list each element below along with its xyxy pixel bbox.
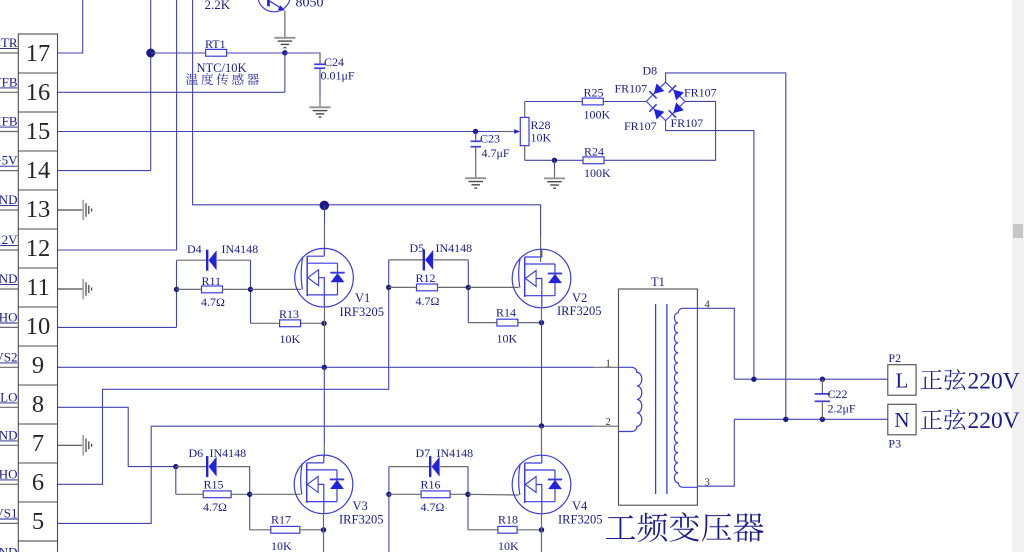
T1 pin4 label (705, 300, 711, 311)
wire V1 gate node vertical (250, 260, 252, 323)
svg-text:4.7Ω: 4.7Ω (416, 294, 440, 308)
svg-text:IN4148: IN4148 (436, 241, 473, 255)
label P3 (888, 437, 901, 451)
label R11 (202, 274, 222, 288)
wire R28 top to R25 (525, 101, 583, 103)
stub pin7 ground (58, 444, 83, 446)
svg-text:IN4148: IN4148 (437, 446, 474, 460)
junction R24 gnd (552, 158, 557, 163)
lead V3 drain (323, 445, 325, 457)
label C23 (480, 131, 500, 145)
wire down to pin16 row (284, 53, 286, 92)
svg-text:4.7Ω: 4.7Ω (201, 295, 225, 309)
resistor R12 (389, 284, 469, 291)
lead V1 gate (251, 288, 302, 290)
svg-text:2HO: 2HO (0, 309, 18, 324)
resistor R15 (176, 491, 250, 498)
svg-text:2.2μF: 2.2μF (828, 402, 856, 416)
label D6 (189, 446, 204, 460)
svg-text:RT1: RT1 (205, 37, 226, 51)
svg-text:VS2: VS2 (0, 349, 18, 364)
svg-text:NTC/10K: NTC/10K (197, 61, 247, 75)
junction V2 gate tap (466, 285, 471, 290)
ground pin7 (83, 435, 91, 455)
label IN4148 D6 (210, 446, 247, 460)
label V3 (353, 499, 368, 513)
resistor R11 (177, 286, 251, 293)
junction V3 gate tap (247, 492, 252, 497)
svg-text:VS1: VS1 (0, 505, 18, 520)
wire D6 loop left vertical (175, 467, 177, 495)
svg-text:T1: T1 (651, 275, 665, 289)
wire to C24 (285, 53, 320, 63)
svg-text:17: 17 (26, 40, 51, 67)
label 10K R13 (280, 332, 301, 346)
label 4.7ohm R16 (421, 500, 445, 514)
junction C22 bottom (820, 417, 825, 422)
wire pin17 to top (58, 0, 83, 53)
svg-text:R18: R18 (498, 513, 518, 527)
wire D7 loop left vertical (388, 467, 390, 495)
svg-text:IFB: IFB (0, 114, 18, 129)
lead V4 gate (468, 493, 519, 496)
lead V2 source (541, 308, 543, 323)
lead V1 source (324, 307, 326, 368)
svg-text:L: L (895, 369, 908, 393)
svg-text:R16: R16 (421, 478, 441, 492)
svg-text:C23: C23 (480, 131, 500, 145)
mosfet V2 IRF3205 (512, 249, 571, 308)
svg-text:GND: GND (0, 271, 18, 286)
svg-text:11: 11 (26, 274, 50, 301)
junction R11 left (174, 287, 179, 292)
label IRF3205 V3 (339, 513, 383, 527)
wire pin10 (58, 326, 177, 328)
junction V2 source / T1 pin2 (539, 423, 544, 428)
lead V2 drain (540, 237, 542, 262)
svg-text:1HO: 1HO (0, 466, 18, 481)
port P2 box L (888, 365, 916, 396)
svg-text:V1: V1 (355, 291, 370, 305)
wire V2 source to output node (541, 323, 543, 426)
stub pin13 ground (58, 209, 83, 211)
resistor R16 (389, 491, 468, 498)
wire bridge top to N net (666, 73, 786, 419)
label 100K R25 (584, 108, 611, 122)
junction R18 source (539, 527, 544, 532)
svg-text:IRF3205: IRF3205 (340, 305, 384, 319)
label D4 (187, 242, 202, 256)
capacitor C24 (314, 53, 325, 107)
label IN4148 D5 (436, 241, 473, 255)
lead V1 drain (324, 224, 326, 249)
junction emitter node (282, 50, 287, 55)
svg-text:R12: R12 (416, 271, 436, 285)
label D8 (643, 63, 658, 77)
svg-text:V4: V4 (572, 499, 588, 513)
label 2.2uF (828, 402, 856, 416)
label R25 (584, 86, 604, 100)
resistor R25 (582, 98, 603, 105)
wire T1 pin3 to N (697, 419, 734, 486)
svg-text:10K: 10K (271, 539, 292, 552)
svg-text:N: N (894, 408, 909, 432)
diode D4 (177, 250, 251, 271)
svg-text:IRF3205: IRF3205 (558, 513, 602, 527)
bridge diode top-left FR107 (649, 83, 664, 98)
label C24 (324, 55, 344, 69)
svg-text:P3: P3 (888, 437, 901, 451)
svg-text:100K: 100K (584, 166, 611, 180)
label 10K R14 (497, 332, 518, 346)
junction C22 top (820, 377, 825, 382)
label V1 (355, 291, 370, 305)
resistor R14 (468, 319, 541, 326)
svg-text:R14: R14 (496, 306, 516, 320)
wire R28 bottom to R24 (525, 159, 583, 161)
svg-text:FR107: FR107 (615, 82, 648, 96)
svg-text:7: 7 (32, 430, 44, 457)
lead V3 gate (250, 493, 301, 495)
wire pin5 vertical (58, 426, 152, 523)
transformer T1 box (619, 289, 698, 505)
capacitor C22 (815, 379, 831, 419)
svg-text:12: 12 (26, 235, 51, 262)
svg-text:13: 13 (26, 196, 51, 223)
svg-text:D5: D5 (410, 241, 425, 255)
label 0.01uF (321, 69, 355, 83)
wire pin8 to V3 loop (58, 407, 176, 466)
svg-text:GND: GND (0, 192, 18, 207)
scrollbar thumb (1013, 224, 1023, 238)
label 2.2K (205, 0, 231, 12)
svg-text:6: 6 (32, 469, 44, 496)
svg-text:R17: R17 (271, 513, 291, 527)
junction V1 drain big dot (320, 201, 330, 211)
junction bridge-N (783, 417, 788, 422)
junction R12 left (386, 285, 391, 290)
svg-text:2: 2 (606, 417, 611, 428)
label FR107 bottom-right (671, 116, 704, 130)
svg-text:4.7Ω: 4.7Ω (421, 500, 445, 514)
wire RT1 right (227, 52, 285, 54)
label R24 (584, 145, 604, 159)
mosfet V4 IRF3205 (512, 455, 571, 514)
wire pin15 VFB row (58, 131, 515, 133)
svg-text:14: 14 (26, 157, 51, 184)
svg-text:IN4148: IN4148 (210, 446, 247, 460)
junction V1 source / pin9 (322, 365, 327, 370)
wire R25 to bridge (603, 101, 647, 103)
junction R13 source (321, 321, 326, 326)
svg-text:GND: GND (0, 427, 18, 442)
mosfet V1 IRF3205 (295, 248, 354, 307)
svg-text:+12V: +12V (0, 232, 18, 247)
wire N row (734, 418, 888, 420)
label 10K R17 (271, 539, 292, 552)
capacitor C23 (471, 132, 482, 178)
port P3 box N (888, 404, 916, 435)
svg-text:FR107: FR107 (624, 119, 657, 133)
svg-text:R11: R11 (202, 274, 222, 288)
label 4.7ohm R15 (203, 500, 227, 514)
label NTC/10K (197, 61, 247, 75)
bridge diode top-right FR107 (669, 85, 684, 100)
wire vertical net CTR (150, 0, 152, 171)
svg-text:V3: V3 (353, 499, 368, 513)
label R18 (498, 513, 518, 527)
wire V2 gate node vertical (467, 260, 469, 323)
transistor Q1 8050 (258, 0, 291, 12)
potentiometer R28 (514, 102, 529, 161)
resistor R18 (468, 526, 542, 533)
label IRF3205 V4 (558, 513, 602, 527)
connector pin leads left (0, 53, 18, 523)
label R12 (416, 271, 436, 285)
bridge rectifier D8 diamond (646, 82, 685, 120)
wire D5 loop left vertical (388, 260, 390, 288)
wire RT1 left (151, 52, 206, 54)
svg-text:D7: D7 (416, 446, 431, 460)
wire V4 gate drive from bottom (388, 494, 390, 552)
mosfet V3 IRF3205 (294, 455, 353, 514)
svg-text:220V: 220V (968, 408, 1020, 434)
resistor RT1 (205, 37, 227, 56)
label D5 (410, 241, 425, 255)
wire pin16 (58, 91, 285, 93)
wire V3 gate node vertical (249, 467, 251, 530)
stub pin11 ground (58, 288, 83, 290)
label P2 (888, 351, 901, 365)
wire V2 source to V4 drain (541, 426, 543, 457)
svg-text:5: 5 (32, 508, 44, 535)
wire +BUS top rail (193, 0, 541, 237)
label FR107 top-right (684, 85, 717, 99)
wire pin6 to V2 gate loop (58, 287, 389, 484)
label IRF3205 V2 (557, 304, 601, 318)
diode D5 (389, 249, 469, 270)
junction R17 source (321, 527, 326, 532)
lead V4 source to edge (541, 514, 543, 552)
bridge diode bottom-left FR107 (649, 104, 664, 119)
svg-text:0.01μF: 0.01μF (321, 69, 355, 83)
svg-text:FR107: FR107 (684, 85, 717, 99)
bridge diode bottom-right FR107 (669, 103, 684, 118)
label V2 (572, 291, 587, 305)
connector pin4 label clipped (0, 544, 18, 552)
svg-text:1: 1 (606, 359, 611, 370)
label R13 (279, 307, 299, 321)
wire pin5 to T1 pin2 (151, 425, 618, 427)
junction V1 gate tap (248, 287, 253, 292)
label temperature sensor CJK (186, 73, 259, 85)
diode D6 (176, 456, 250, 477)
label 100K R24 (584, 166, 611, 180)
svg-text:16: 16 (26, 79, 51, 106)
svg-text:10: 10 (26, 313, 51, 340)
wire R24 to bridge right (604, 101, 715, 160)
junction R16 left (386, 492, 391, 497)
label 8050 (296, 0, 324, 10)
label sine 220V line2 (921, 408, 1020, 434)
svg-text:4.7μF: 4.7μF (482, 146, 510, 160)
label 4.7ohm R12 (416, 294, 440, 308)
label IN4148 D4 (222, 242, 259, 256)
label 10K R28 (531, 131, 552, 145)
svg-text:GND: GND (0, 544, 18, 552)
wire pin12 net vertical (58, 0, 177, 250)
connector pin numbers 17-5 (26, 40, 51, 535)
svg-text:10K: 10K (498, 539, 519, 552)
svg-text:9: 9 (32, 352, 44, 379)
label FR107 top-left (615, 82, 648, 96)
label R16 (421, 478, 441, 492)
wire V1 source to V3 drain (323, 367, 325, 445)
wire T1 pin4 to L (697, 308, 734, 379)
svg-text:10K: 10K (531, 131, 552, 145)
svg-text:8050: 8050 (296, 0, 324, 10)
label IN4148 D7 (437, 446, 474, 460)
svg-text:IRF3205: IRF3205 (339, 513, 383, 527)
svg-text:10K: 10K (497, 332, 518, 346)
svg-text:R25: R25 (584, 86, 604, 100)
transformer core lines (656, 304, 667, 494)
svg-text:FR107: FR107 (671, 116, 704, 130)
label IRF3205 V1 (340, 305, 384, 319)
svg-text:R24: R24 (584, 145, 604, 159)
svg-text:4.7Ω: 4.7Ω (203, 500, 227, 514)
svg-text:15: 15 (26, 118, 51, 145)
svg-text:D4: D4 (187, 242, 202, 256)
svg-text:+5V: +5V (0, 153, 18, 168)
label FR107 bottom-left (624, 119, 657, 133)
label T1 (651, 275, 665, 289)
svg-text:CTR: CTR (0, 35, 18, 50)
svg-text:4: 4 (705, 300, 711, 311)
junction bridge-L (751, 377, 756, 382)
label 10K R18 (498, 539, 519, 552)
T1 pin3 label (705, 477, 710, 488)
svg-text:D6: D6 (189, 446, 204, 460)
junction D6 top-left (173, 464, 178, 469)
T1 primary winding (619, 367, 642, 431)
wire bridge bottom to L net (666, 121, 754, 380)
svg-text:VFB: VFB (0, 74, 18, 89)
resistor R24 (583, 157, 604, 164)
wire V1 drain upper (324, 205, 326, 224)
label R17 (271, 513, 291, 527)
resistor R13 (251, 320, 325, 327)
label V4 (572, 499, 588, 513)
ground pin13 (83, 200, 91, 220)
ground Q1 emitter (274, 38, 295, 48)
svg-text:IN4148: IN4148 (222, 242, 259, 256)
T1 pin2 label (606, 417, 611, 428)
label C22 (828, 387, 848, 401)
wire V4 gate node vertical (467, 467, 469, 530)
junction V4 gate tap (465, 492, 470, 497)
lead gnd R24 node (554, 160, 556, 178)
wire D4 loop left vertical (176, 260, 178, 327)
lead V2 gate (468, 286, 519, 288)
svg-text:D8: D8 (643, 63, 658, 77)
label R15 (204, 478, 224, 492)
label R28 (531, 118, 551, 132)
svg-text:220V: 220V (968, 368, 1020, 394)
svg-text:P2: P2 (888, 351, 901, 365)
connector net labels underlined (clipped) (0, 35, 18, 520)
ground C24 (310, 107, 331, 117)
svg-text:2LO: 2LO (0, 389, 18, 404)
svg-text:100K: 100K (584, 108, 611, 122)
svg-text:10K: 10K (280, 332, 301, 346)
diode D7 (389, 456, 468, 477)
svg-text:2.2K: 2.2K (205, 0, 231, 12)
label D7 (416, 446, 431, 460)
svg-text:V2: V2 (572, 291, 587, 305)
connector P1 pin box (18, 34, 57, 552)
label 4.7uF (482, 146, 510, 160)
junction R14 source (539, 320, 544, 325)
svg-text:C24: C24 (324, 55, 344, 69)
svg-text:R13: R13 (279, 307, 299, 321)
T1 pin1 label (606, 359, 611, 370)
label 4.7ohm R11 (201, 295, 225, 309)
svg-text:8: 8 (32, 391, 44, 418)
label R14 (496, 306, 516, 320)
ground R24 node (544, 178, 565, 188)
label sine 220V line1 (921, 368, 1020, 394)
wire pin9 to T1 pin1 (58, 366, 619, 368)
ground C23 (465, 178, 486, 188)
resistor R17 (250, 526, 324, 533)
wire pin14 (58, 170, 151, 172)
svg-text:C22: C22 (828, 387, 848, 401)
junction C23 (473, 129, 478, 134)
T1 secondary winding (674, 308, 697, 487)
svg-text:IRF3205: IRF3205 (557, 304, 601, 318)
svg-text:R15: R15 (204, 478, 224, 492)
lead V3 source to edge (323, 515, 325, 552)
label transformer CJK (606, 512, 764, 542)
ground pin11 (83, 279, 91, 299)
scrollbar track (1012, 0, 1024, 552)
wire L row (734, 378, 888, 380)
junction RT1-left (146, 49, 155, 58)
lead Q1 emitter (284, 11, 286, 38)
